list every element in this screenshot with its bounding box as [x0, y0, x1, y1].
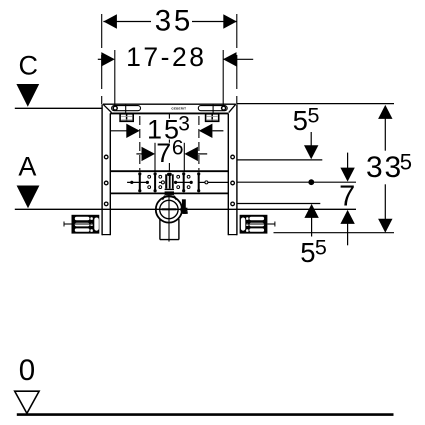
datum line 0: [17, 413, 394, 416]
node dot on R3: [308, 179, 314, 185]
svg-text:5: 5: [315, 236, 327, 260]
reference line R1 top right: [237, 103, 394, 105]
right foot box: [240, 215, 268, 234]
svg-text:5: 5: [308, 104, 320, 128]
plate donut pairs: [148, 175, 190, 188]
dimension 7-6 arrows: [136, 147, 207, 161]
water fitting walls: [165, 174, 174, 188]
svg-text:33: 33: [366, 151, 403, 184]
reference line R3: [237, 181, 356, 183]
plate bar 2: [154, 172, 157, 192]
datum triangle A: [17, 186, 40, 209]
datum line A: [15, 208, 356, 210]
left bracket box: [120, 114, 133, 122]
clamp screw: [180, 199, 187, 214]
dimension 17-28 line: [98, 52, 253, 66]
pipe below clamp: [160, 219, 179, 240]
datum triangle C: [16, 84, 39, 107]
frame top rail top face back edge: [103, 103, 236, 105]
frame top rail left corner diagonal: [103, 104, 112, 112]
frame top rail front thick edge: [110, 112, 228, 114]
left rail outer edge: [101, 104, 103, 235]
plate bar 4: [197, 172, 200, 192]
pipe vertical centerline: [168, 197, 170, 242]
right foot slots: [241, 217, 264, 232]
svg-text:35: 35: [155, 4, 193, 37]
left foot box: [72, 215, 100, 234]
plate open circles: [161, 181, 208, 184]
right foot centerline: [246, 223, 265, 225]
svg-text:C: C: [18, 50, 38, 80]
right bracket box: [206, 114, 219, 122]
right rail bottom cap: [228, 234, 237, 236]
dimension 15-3 ticks: [140, 116, 199, 170]
pipe clamp inner circle: [160, 200, 178, 218]
reference line R2: [237, 159, 322, 161]
left rail bottom cap: [102, 234, 110, 236]
reference line R4: [237, 203, 320, 205]
svg-text:5: 5: [400, 149, 412, 174]
plate bar 3: [182, 172, 185, 192]
dimension 35 extension ticks: [102, 14, 237, 104]
mounting plate bottom edge: [110, 192, 228, 194]
svg-text:6: 6: [172, 137, 184, 160]
right rail holes: [231, 155, 235, 206]
top rail left slot: [112, 106, 141, 111]
dimension 17-28 extension ticks: [115, 50, 223, 106]
water fitting flare: [162, 196, 165, 200]
plate centerline dots: [130, 181, 193, 184]
svg-text:7: 7: [339, 181, 355, 213]
left foot stub: [64, 223, 72, 225]
plate centerline segment C: [175, 181, 191, 183]
right rail outer edge: [236, 104, 238, 235]
dimension 7-6 extension ticks: [155, 143, 184, 171]
water fitting cap: [167, 173, 172, 176]
svg-text:17-28: 17-28: [126, 42, 206, 72]
top rail left slot ring: [113, 106, 117, 110]
plate centerline segment B: [159, 181, 163, 183]
center axis segments: [168, 114, 170, 171]
left rail inner edge: [109, 113, 111, 235]
dimension 5-5 bottom arrow: [304, 204, 318, 237]
frame top rail right corner diagonal: [229, 104, 236, 112]
svg-text:A: A: [18, 152, 36, 182]
reference line R6 bottom right: [274, 232, 395, 234]
pipe clamp outer circle: [156, 196, 182, 222]
dimension 7 arrows: [340, 153, 354, 246]
datum triangle 0 (open): [15, 391, 39, 413]
plate centerline segment D: [199, 181, 206, 183]
top rail right slot: [198, 106, 227, 111]
left foot centerline: [75, 223, 93, 225]
svg-text:5: 5: [293, 105, 308, 136]
right foot stub: [267, 223, 275, 225]
left rail holes: [104, 155, 108, 206]
right rail inner edge: [227, 113, 229, 235]
pipe center dash: [162, 208, 177, 210]
plate centerline segment E: [206, 181, 228, 183]
anchor tick left: [125, 105, 127, 114]
dimension 5-5 top arrow: [304, 132, 318, 159]
dimension 15-3 arrows: [111, 124, 224, 138]
plate bar 1: [138, 172, 141, 192]
dimension 33-5 line and arrows: [378, 105, 392, 233]
svg-text:GEBERIT: GEBERIT: [171, 107, 186, 111]
dimension 35 line: [103, 14, 236, 28]
svg-text:5: 5: [300, 237, 315, 268]
anchor tick right: [212, 105, 214, 114]
top rail right slot ring: [222, 106, 226, 110]
svg-text:3: 3: [178, 112, 190, 135]
water fitting threads: [165, 189, 174, 196]
left foot slots: [75, 217, 99, 232]
datum line C: [15, 107, 102, 109]
plate centerline segment A: [127, 181, 147, 183]
svg-text:0: 0: [19, 354, 35, 387]
mounting plate top edge: [110, 170, 228, 172]
